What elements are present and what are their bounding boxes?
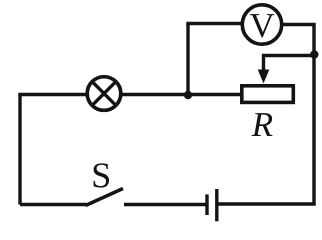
wire: slider branch horizontal (264, 54, 315, 57)
wire: voltmeter branch vertical drop (186, 24, 189, 96)
wire: bottom left segment to switch (20, 203, 87, 207)
slider arrowhead of rheostat (258, 70, 270, 84)
wire: right vertical branch (312, 25, 315, 205)
switch S lever (86, 189, 124, 206)
label R (252, 113, 273, 136)
wire: left vertical branch (18, 95, 21, 205)
battery negative plate (short) (205, 194, 208, 215)
label S (94, 163, 109, 187)
rheostat R body (242, 86, 293, 103)
lamp L1 (87, 77, 121, 111)
wire: slider arrow shaft (262, 54, 265, 72)
wire: lamp row right segment to rheostat (121, 93, 241, 96)
voltmeter V1 (242, 5, 281, 44)
wire: bottom right segment battery to corner (218, 202, 316, 206)
battery positive plate (long) (215, 189, 218, 221)
wire: bottom middle segment switch to battery (124, 203, 206, 207)
wire: lamp row left segment (18, 93, 87, 96)
node: junction of slider branch on right vertical (310, 50, 318, 58)
node: junction of voltmeter branch and lamp row (184, 91, 192, 99)
wire: voltmeter to top-right corner (282, 23, 316, 26)
wire: voltmeter branch top horizontal (186, 22, 242, 25)
